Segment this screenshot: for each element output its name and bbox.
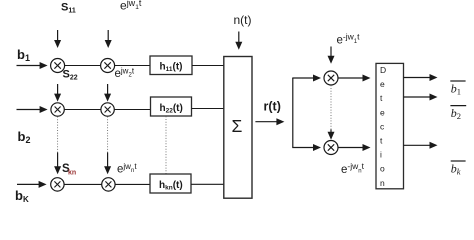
dotted wire between h22 and hkn <box>165 116 167 174</box>
dotted wire below M3 <box>57 117 59 153</box>
label r(t) <box>264 100 281 114</box>
arrow from e^-jw1t into multiplier M7 <box>328 47 335 64</box>
filter h11 <box>150 56 192 75</box>
svg-text:D: D <box>380 65 386 75</box>
label e^-jwnt <box>341 161 365 176</box>
multiplier M5 <box>51 178 64 191</box>
wire M5 to M6 <box>64 183 101 185</box>
label e^-jw1t <box>337 32 361 47</box>
label n(t) <box>234 13 252 27</box>
svg-text:o: o <box>380 164 385 174</box>
wire output arrow 1 <box>404 74 438 81</box>
arrow from S22 into multiplier M3 <box>54 84 61 102</box>
label S11 <box>61 2 76 15</box>
arrow into multiplier M5 <box>54 153 61 175</box>
arrow from e^jw1t into multiplier M2 <box>105 30 112 48</box>
wire M3 to M4 <box>65 109 101 111</box>
label bK <box>15 188 29 204</box>
wire splitter vertical <box>292 78 294 148</box>
label e^jw1t <box>120 0 142 13</box>
dotted wire M7 to M8 <box>330 85 332 129</box>
wire input arrow row2 <box>17 106 48 113</box>
summer block <box>224 57 252 199</box>
svg-text:kn: kn <box>68 170 76 177</box>
svg-text:e: e <box>380 79 385 89</box>
wire M2 to filter h11 <box>115 65 150 67</box>
multiplier M1 <box>51 59 65 73</box>
label bbark <box>451 161 466 177</box>
arrow from S11 into multiplier M1 <box>54 30 61 48</box>
wire M1 to M2 <box>65 65 101 67</box>
arrow into multiplier M6 <box>104 153 111 175</box>
arrow into M8 <box>328 130 335 140</box>
wire h11 to summer <box>192 65 224 67</box>
wire M8 to detection <box>338 144 370 151</box>
wire hkn to summer <box>191 183 224 185</box>
detection block <box>376 63 404 188</box>
multiplier M8 <box>324 141 338 155</box>
svg-text:r(t): r(t) <box>264 100 281 114</box>
wire M4 to filter h22 <box>115 109 151 111</box>
dotted wire below M4 <box>107 117 109 153</box>
wire output arrow 2 <box>404 94 438 101</box>
wire output arrow 3 <box>404 142 438 149</box>
wire M6 to filter hkn <box>115 183 150 185</box>
multiplier M7 <box>324 71 338 85</box>
multiplier M3 <box>51 103 64 116</box>
svg-text:i: i <box>380 150 382 160</box>
label b1 <box>17 47 30 63</box>
multiplier M4 <box>101 103 114 116</box>
label S22 <box>63 69 78 82</box>
label e^jw2t <box>115 67 135 81</box>
label bbar2 <box>450 106 466 122</box>
label Skn <box>62 163 76 177</box>
label b2 <box>18 129 31 145</box>
wire r(t) arrow from summer <box>255 118 284 125</box>
wire h22 to summer <box>192 108 224 110</box>
wire input arrow row3 <box>17 181 47 188</box>
label e^jwnt <box>117 162 137 176</box>
svg-text:e: e <box>380 107 385 117</box>
wire branch to M8 <box>292 144 321 151</box>
label bbar1 <box>450 81 465 97</box>
multiplier M2 <box>101 59 115 73</box>
wire M7 to detection <box>338 75 370 82</box>
svg-text:n(t): n(t) <box>234 13 252 27</box>
wire input arrow row1 <box>17 62 48 69</box>
arrow from e^jw2t into multiplier M4 <box>104 84 111 102</box>
filter h22 <box>151 97 192 116</box>
svg-text:Σ: Σ <box>232 116 243 136</box>
filter hkn <box>150 174 191 193</box>
arrow from n(t) into summer <box>235 32 242 50</box>
svg-text:n: n <box>380 178 385 188</box>
multiplier M6 <box>102 178 115 191</box>
wire branch to M7 <box>292 75 321 82</box>
